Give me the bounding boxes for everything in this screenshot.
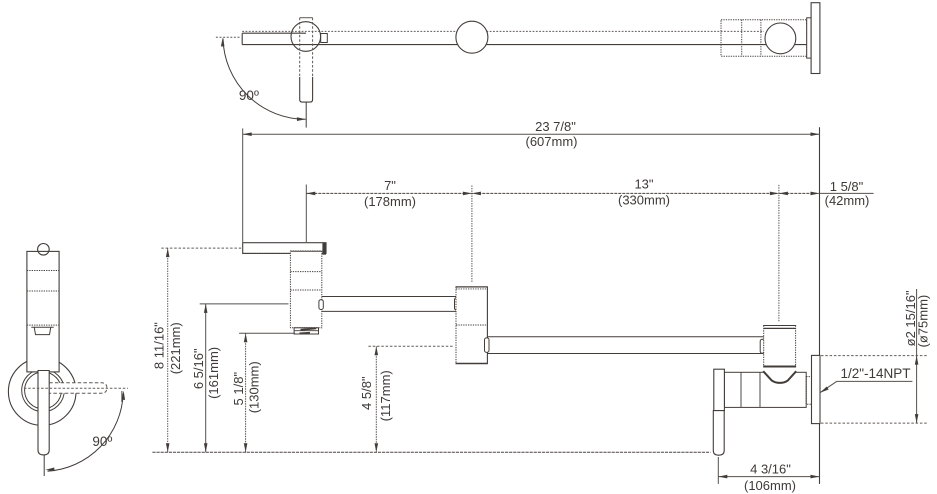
spout in rotated position (top view, phantom dashed vertical) xyxy=(300,18,313,102)
middle swivel joint (front view) xyxy=(456,287,487,364)
arm 1 left end tab xyxy=(319,300,323,310)
pivot pin circle (side view top) xyxy=(38,244,50,256)
svg-text:(117mm): (117mm) xyxy=(378,370,393,421)
baseline (dashed) xyxy=(152,451,710,453)
funnel transition between joint and valve xyxy=(763,368,796,383)
arm end tab right of C1 (top view) xyxy=(321,34,328,43)
wall flange (front view) xyxy=(812,355,821,423)
spout body (front view) xyxy=(290,251,321,328)
arm 1 right end tab xyxy=(455,298,459,310)
swivel joint circle C1 (top view) xyxy=(291,22,321,52)
svg-text:7": 7" xyxy=(384,178,396,193)
node: spout centerline below (top view) xyxy=(305,102,307,128)
faucet body folded (side view) xyxy=(27,251,59,372)
dimension 8 11/16 line (dotted) xyxy=(167,248,169,452)
svg-text:4 5/8": 4 5/8" xyxy=(359,376,374,410)
svg-text:(ø75mm): (ø75mm) xyxy=(916,295,931,348)
extension top (dashed) xyxy=(821,355,927,357)
wire: arm bottom outline (top view, solid) xyxy=(242,44,807,46)
mount collar edge (top view) xyxy=(807,18,811,58)
dimension 6 5/16 line xyxy=(205,304,207,452)
svg-text:(106mm): (106mm) xyxy=(744,478,796,493)
dimension line xyxy=(718,476,819,478)
handle escutcheon (front view) xyxy=(714,369,725,410)
90 degree rotation arc (top view) xyxy=(223,39,306,120)
svg-text:(42mm): (42mm) xyxy=(825,193,870,208)
wall flange plate (top view) xyxy=(811,3,820,74)
arm 2 (front view) xyxy=(487,337,764,354)
right wall joint cylinder (front view) xyxy=(764,326,796,367)
svg-text:(178mm): (178mm) xyxy=(364,194,416,209)
extension line at spout centerline xyxy=(305,185,307,243)
spout arm folded left (top view) xyxy=(242,33,306,44)
arm 2 right end tab xyxy=(760,339,764,353)
swivel joint circle C3 at wall mount (top view) xyxy=(765,23,796,54)
svg-text:(161mm): (161mm) xyxy=(206,347,221,399)
escutcheon circle (side view) xyxy=(8,358,76,426)
svg-text:4 3/16": 4 3/16" xyxy=(750,462,791,477)
aerator seen from side xyxy=(31,327,53,334)
svg-text:(330mm): (330mm) xyxy=(618,193,670,208)
svg-text:(130mm): (130mm) xyxy=(247,361,262,413)
svg-text:1 5/8": 1 5/8" xyxy=(830,179,864,194)
handle lever (front view) xyxy=(713,411,724,456)
extension bottom (dashed) xyxy=(821,422,927,424)
handle lever horizontal phantom (side view) xyxy=(49,383,107,393)
extension line to arm2 centerline (dashed) xyxy=(368,345,452,347)
extension line left of 23 7/8 xyxy=(242,128,244,242)
svg-text:8 11/16": 8 11/16" xyxy=(152,322,167,369)
arrows for 13" xyxy=(472,192,481,196)
top mounting plate xyxy=(243,243,326,254)
svg-text:(607mm): (607mm) xyxy=(525,134,577,149)
NPT nipple (hidden dashed) xyxy=(806,377,811,405)
dimension 8 11/16: extension top xyxy=(161,247,242,249)
line below handle (side view) xyxy=(43,455,45,476)
90 degree arc (side view) xyxy=(48,394,124,472)
svg-text:90º: 90º xyxy=(239,88,259,103)
swivel joint circle C2 (top view) xyxy=(456,21,488,53)
svg-text:1/2"-14NPT: 1/2"-14NPT xyxy=(840,366,910,381)
valve body (front view) xyxy=(724,372,806,407)
tick at arc start (side view) xyxy=(121,391,123,402)
dimension 5 1/8: extension top xyxy=(239,332,295,334)
dimension 6 5/16: extension top xyxy=(200,303,289,305)
dimension line (dashed) y=193 xyxy=(306,192,819,194)
dimension line 23 7/8 xyxy=(243,133,820,135)
arm 2 left end tab xyxy=(485,338,490,353)
arm 1 (front view) xyxy=(322,297,456,312)
arrows for 1 5/8" xyxy=(779,192,788,196)
svg-text:5 1/8": 5 1/8" xyxy=(231,372,246,406)
arrows for 7" xyxy=(306,192,315,196)
wall line / right extension (full height) xyxy=(819,127,821,484)
inner rings xyxy=(22,369,65,412)
extension below handle xyxy=(717,457,719,484)
dimension 4 5/8 line (dotted) xyxy=(375,346,377,452)
extension line at middle joint (dotted) xyxy=(471,186,473,283)
leader line xyxy=(820,381,912,392)
svg-text:90º: 90º xyxy=(92,434,112,449)
svg-text:6 5/16": 6 5/16" xyxy=(191,348,206,389)
aerator at spout bottom xyxy=(294,328,318,334)
svg-text:13": 13" xyxy=(634,176,653,191)
svg-text:23 7/8": 23 7/8" xyxy=(535,119,576,134)
centerline through lever (dashed) xyxy=(24,387,128,389)
wire: phantom top edge of folded arm (top view, dashed) xyxy=(242,30,764,32)
dimension 5 1/8 line (dotted) xyxy=(245,333,247,452)
svg-text:(221mm): (221mm) xyxy=(168,322,183,374)
dimension line vertical xyxy=(916,289,918,423)
extension line at wall joint (dotted) xyxy=(778,185,780,322)
valve body (top view, hidden dashed) xyxy=(721,20,807,57)
90 degree rotation tick line (top view) xyxy=(216,36,241,38)
handle lever vertical (side view) xyxy=(38,371,49,455)
